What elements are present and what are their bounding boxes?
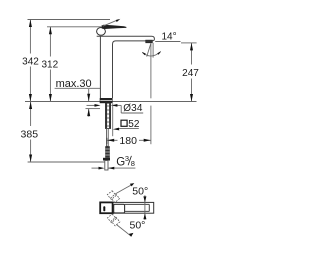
threaded shank below deck [105,103,110,128]
dimension G3/8 arrows [92,167,136,170]
svg-text:342: 342 [22,57,39,68]
bottom view handle section dark [100,202,112,213]
leader top 50 [116,183,135,194]
svg-text:50°: 50° [130,219,146,231]
label max.30 [55,78,101,90]
dimension max30 arrows [87,89,90,117]
dimension Ø34 [87,103,144,114]
dimension 180 [107,135,151,147]
bottom reference line (hose end level) [28,161,105,163]
svg-text:3: 3 [125,154,129,163]
dimension 312 [41,27,58,102]
base plinth [100,98,113,103]
dimension 342 [22,20,39,102]
deck bottom line left [86,108,101,110]
bottom view joint square [114,204,125,213]
hose between shank and G-thread [106,129,108,147]
dimension 385 [21,102,39,163]
extension line outlet level [155,41,180,43]
bottom view arm inner lines [125,204,150,211]
svg-text:247: 247 [182,68,199,79]
stream vertical line upper [150,43,152,98]
leader bottom 50 [116,225,133,237]
bottom view 50 degree vertical line with arrows [143,195,146,220]
raised lever line with arrow [103,19,121,26]
G3/8 threaded end [105,146,110,158]
bottom view outer rect [100,202,154,213]
deck top line [25,101,197,103]
handle lever side view [101,25,126,29]
svg-text:52: 52 [128,119,140,130]
svg-text:8: 8 [131,159,135,168]
handle knob side view [97,28,106,36]
svg-text:50°: 50° [132,185,148,197]
svg-text:312: 312 [41,60,58,71]
label G3/8 [116,154,135,169]
svg-text:180: 180 [119,135,137,147]
extension line L1 top (raised lever height) [28,19,111,21]
14 degree slant line [147,43,151,56]
svg-text:Ø34: Ø34 [123,103,143,114]
stream vertical line lower (180 extension) [150,106,152,145]
extension line L2 (closed lever height) [47,26,101,28]
dashed rotated squares bottom (spout swivel position) [107,214,119,226]
square52 extension line [112,103,114,136]
dimension square 52 [113,119,140,130]
dashed rotated squares top (spout swivel position) [107,191,119,203]
svg-text:385: 385 [21,129,39,141]
dimension 247 [182,43,199,102]
plumb line at spout tip [152,43,154,58]
tube below nut [105,161,108,171]
svg-text:14°: 14° [162,31,177,42]
14 degree arc with arrows [142,51,161,56]
aerator outlet [146,40,153,43]
hose end nut [103,158,110,161]
faucet body side view [97,36,155,98]
